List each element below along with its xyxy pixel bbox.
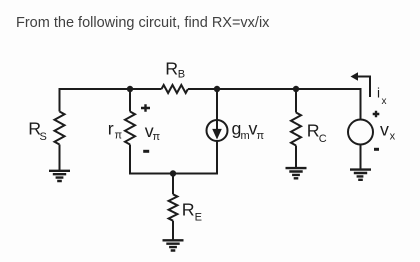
wire bottom rail U (r-pi bottom to source bottom) xyxy=(130,141,217,174)
resistor RS xyxy=(55,112,65,145)
wire vx to ground xyxy=(360,145,362,169)
minus sign (v-pi) xyxy=(143,150,149,153)
ground (RE) xyxy=(163,240,184,250)
ix arrowhead xyxy=(351,72,359,80)
resistor RE xyxy=(169,194,178,220)
wire top rail right + vx corner xyxy=(188,89,361,120)
minus sign (vx) xyxy=(374,148,379,151)
wire current source branch top xyxy=(216,89,218,120)
svg-text:C: C xyxy=(319,133,327,145)
current source gmVpi circle xyxy=(207,120,228,141)
svg-text:x: x xyxy=(382,96,387,107)
svg-text:r: r xyxy=(108,119,114,139)
resistor r-pi xyxy=(125,112,135,145)
svg-text:S: S xyxy=(40,131,47,143)
plus sign (vx) xyxy=(373,111,380,118)
ground (RS) xyxy=(49,171,70,181)
svg-text:π: π xyxy=(153,131,161,143)
wire top rail left + RS corner xyxy=(60,89,162,112)
resistor RB xyxy=(162,85,188,93)
svg-text:π: π xyxy=(115,130,123,142)
title text xyxy=(16,15,269,31)
wire RE branch xyxy=(172,174,174,195)
wire RC to ground xyxy=(295,146,297,168)
svg-text:R: R xyxy=(182,200,195,220)
svg-text:x: x xyxy=(390,131,396,143)
ground (RC) xyxy=(286,168,307,178)
node dot (source / top rail) xyxy=(214,86,220,92)
current source arrow xyxy=(216,121,218,130)
svg-text:π: π xyxy=(257,130,265,142)
svg-text:i: i xyxy=(377,86,380,101)
svg-text:R: R xyxy=(165,59,178,79)
voltage source vx circle xyxy=(348,120,373,145)
resistor RC xyxy=(291,113,301,146)
wire RC branch top xyxy=(295,89,297,113)
svg-text:E: E xyxy=(195,211,202,223)
node dot (r-pi / top rail) xyxy=(127,86,133,92)
wire RE to ground xyxy=(172,221,174,240)
plus sign (v-pi) xyxy=(141,104,150,112)
svg-text:v: v xyxy=(380,120,389,140)
node dot (RC / top rail) xyxy=(293,86,299,92)
svg-text:B: B xyxy=(178,69,185,81)
wire RS to ground xyxy=(59,145,61,171)
ground (vx) xyxy=(350,170,371,180)
ix arrow hook xyxy=(354,77,370,98)
wire r-pi branch top xyxy=(129,89,131,112)
node dot (RE / bottom rail) xyxy=(170,170,176,176)
